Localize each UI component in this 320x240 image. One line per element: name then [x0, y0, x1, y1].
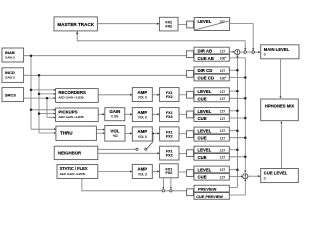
junction tap on row3 wire [152, 132, 154, 134]
svg-text:CUE LEVEL: CUE LEVEL [264, 171, 288, 176]
wire main sum line [240, 51, 259, 53]
svg-text:FX1: FX1 [166, 91, 173, 95]
svg-text:CUE AB: CUE AB [198, 56, 214, 61]
wire dir ab out [229, 51, 233, 53]
junction level3 join [236, 90, 239, 93]
svg-text:127: 127 [220, 129, 226, 133]
svg-text:CUE: CUE [198, 96, 207, 101]
svg-text:127: 127 [220, 148, 226, 152]
wire bus INCD vertical [38, 75, 40, 133]
input INCD [2, 68, 24, 83]
node preview tap node 1 [162, 190, 164, 192]
svg-text:LEVEL: LEVEL [198, 89, 212, 94]
svg-text:FX2: FX2 [166, 171, 173, 175]
wire main level bus [230, 55, 238, 188]
svg-text:127: 127 [220, 110, 226, 114]
svg-text:DIR CD: DIR CD [198, 68, 213, 73]
junction INCD branch [38, 74, 41, 77]
svg-text:STATIC / FLEX: STATIC / FLEX [60, 166, 88, 171]
static flex [57, 165, 98, 179]
wire master to fx [97, 23, 157, 25]
pair6 upper LEVEL [194, 146, 229, 153]
fader ramp [195, 21, 229, 30]
wire fx to fork0 [178, 23, 187, 25]
arrow into master track [76, 31, 78, 34]
wire amp5 to fx5 [152, 170, 158, 172]
splitter 2 [187, 71, 194, 78]
junction level7 join [236, 168, 239, 171]
wire level6 out [229, 149, 237, 151]
amp1 [132, 88, 152, 102]
wire fx1 to fork3 [179, 94, 187, 96]
svg-text:0: 0 [264, 53, 266, 57]
fx1 [160, 88, 179, 102]
svg-text:VOL 0: VOL 0 [138, 116, 147, 120]
svg-text:FX2: FX2 [166, 134, 173, 138]
junction cue cd join [244, 76, 247, 79]
svg-text:127: 127 [220, 137, 226, 141]
junction cue4 join [244, 117, 247, 120]
wire amp3 to fx3 [152, 132, 158, 134]
wire INCD tap pickups [39, 113, 56, 115]
svg-text:FX1: FX1 [166, 167, 173, 171]
svg-text:INCD: INCD [5, 70, 15, 75]
wire recorders to amp1 [98, 94, 130, 96]
splitter 5 [187, 131, 194, 138]
pair5 lower CUE [194, 134, 229, 141]
pair4 upper LEVEL [194, 107, 229, 114]
amp2 [132, 108, 152, 122]
input INAB [2, 48, 24, 62]
junction INAB-pickups [30, 109, 33, 112]
wire cue3 out [229, 97, 245, 99]
node main sum circle [235, 50, 240, 55]
svg-text:LEVEL: LEVEL [198, 148, 212, 153]
wire dir cd out [229, 69, 237, 71]
svg-text:127: 127 [220, 176, 226, 180]
splitter 1 [187, 51, 194, 58]
wire cue sum out [248, 175, 259, 177]
wire static to amp5 [98, 170, 131, 172]
wire INAB tap pickups [31, 109, 56, 111]
splitter 7 [187, 170, 194, 177]
svg-text:PICKUPS: PICKUPS [58, 109, 77, 114]
svg-text:VOL 0: VOL 0 [138, 135, 147, 139]
svg-text:127: 127 [220, 168, 226, 172]
svg-text:FX2: FX2 [166, 154, 173, 158]
pair3 lower CUE [194, 95, 229, 102]
junction level4 join [236, 110, 239, 113]
fx3 [160, 127, 179, 141]
wire switch tap vertical [152, 133, 154, 141]
svg-text:VOL: VOL [110, 129, 119, 134]
svg-text:127: 127 [220, 117, 226, 121]
wire fx5 preview tap 2 [170, 178, 172, 188]
svg-text:AMP: AMP [137, 90, 147, 95]
wire INAB tap thru [31, 128, 56, 130]
svg-text:RECORDERS: RECORDERS [58, 90, 86, 95]
pair1 lower CUE AB [194, 55, 229, 62]
wire INCD to fork2 [23, 74, 186, 76]
pickups [56, 108, 99, 122]
wire main level to hphones [280, 59, 282, 97]
recorders [56, 89, 99, 103]
wire bus SRC3 vertical [47, 98, 56, 117]
pair2 upper DIR CD [194, 67, 229, 74]
svg-text:CUE: CUE [198, 175, 207, 180]
svg-text:VOL 0: VOL 0 [138, 96, 147, 100]
junction cue3 join [244, 97, 247, 100]
svg-text:LEVEL: LEVEL [198, 167, 212, 172]
splitter 3 [187, 91, 194, 98]
junction INCD-recorders [38, 93, 41, 96]
wire cue cd out [229, 77, 245, 79]
svg-text:127: 127 [220, 49, 226, 53]
svg-text:127: 127 [220, 90, 226, 94]
svg-text:AED GAIN +12DB: AED GAIN +12DB [60, 172, 85, 176]
svg-text:AMP: AMP [137, 110, 147, 115]
splitter master [187, 21, 194, 28]
wire INAB to fork1 [24, 55, 187, 57]
svg-text:CUE: CUE [198, 136, 207, 141]
fx0 [159, 17, 178, 31]
svg-text:LEVEL: LEVEL [198, 19, 212, 24]
junction INAB-recorders [30, 89, 33, 92]
svg-text:FX2: FX2 [165, 25, 172, 29]
svg-text:CUE PREVIEW: CUE PREVIEW [196, 195, 223, 199]
wire cue preview riser [230, 179, 246, 195]
wire gain to amp2 [125, 113, 131, 115]
svg-text:127: 127 [220, 20, 225, 24]
svg-text:VOL 0: VOL 0 [138, 172, 147, 176]
svg-text:PREVIEW: PREVIEW [198, 187, 217, 192]
svg-text:GAIN: GAIN [109, 109, 120, 114]
wire bus INAB vertical [30, 56, 32, 130]
svg-text:HPHONES MIX: HPHONES MIX [265, 103, 295, 108]
node master feed junction [244, 51, 247, 54]
wire fx2 to fork4 [179, 113, 187, 115]
vol [105, 126, 125, 142]
wire INAB tap recorders [31, 89, 56, 91]
junction SRC3 branch [46, 97, 49, 100]
svg-text:MAIN LEVEL: MAIN LEVEL [264, 47, 290, 52]
wire INCD tap recorders [39, 93, 56, 95]
wire neighbor lower to fx4 [98, 152, 158, 154]
svg-text:100°: 100° [220, 57, 227, 61]
neighbor [54, 146, 98, 159]
svg-text:127: 127 [220, 156, 226, 160]
wire cue5 out [229, 137, 245, 139]
wire level0 out [230, 24, 254, 51]
svg-text:127: 127 [220, 69, 226, 73]
svg-text:FX2: FX2 [166, 95, 173, 99]
pair2 lower CUE CD [194, 74, 229, 81]
junction INCD-pickups [38, 112, 41, 115]
wire thru to vol upper [96, 129, 103, 131]
wire thru to vol lower [96, 132, 103, 134]
wire fx4 to fork6 [179, 153, 187, 155]
hphones mix [261, 99, 299, 121]
node switch pivot a [136, 148, 138, 150]
master track [54, 17, 97, 31]
wire vol to amp3 [125, 132, 131, 134]
junction dir cd join [236, 69, 239, 72]
splitter 8 [187, 189, 194, 196]
node preview tap node 2 [170, 190, 172, 192]
svg-text:THRU: THRU [60, 131, 73, 136]
wire level5 out [229, 130, 237, 132]
svg-text:AED GAIN +12DB: AED GAIN +12DB [58, 115, 83, 119]
wire amp2 to fx2 [152, 113, 158, 115]
junction level5 join [236, 129, 239, 132]
svg-text:FX1: FX1 [166, 131, 173, 135]
svg-text:MASTER TRACK: MASTER TRACK [57, 22, 94, 27]
wire INCD tap thru [39, 132, 56, 134]
svg-text:0: 0 [264, 176, 266, 180]
svg-text:NEIGHBOR: NEIGHBOR [58, 151, 82, 156]
svg-text:FX2: FX2 [166, 115, 173, 119]
svg-text:DIR AB: DIR AB [198, 49, 213, 54]
cue level [261, 169, 299, 183]
node master level out junction [252, 51, 255, 54]
wire fx3 to fork5 [179, 133, 187, 135]
pair8 lower CUE PREVIEW [194, 193, 229, 200]
svg-text:CUE CD: CUE CD [198, 76, 214, 81]
svg-text:AED GAIN +12DB: AED GAIN +12DB [58, 96, 83, 100]
junction level6 join [236, 149, 239, 152]
pair6 lower CUE [194, 154, 229, 161]
svg-text:INAB: INAB [5, 50, 15, 55]
svg-text:FX1: FX1 [165, 21, 172, 25]
wire fx5 to fork7 [179, 171, 187, 173]
svg-text:SRC3: SRC3 [5, 92, 16, 97]
fx4 [160, 146, 179, 160]
wire neighbor upper to switch [98, 148, 136, 150]
svg-text:CUE: CUE [198, 155, 207, 160]
svg-text:FX1: FX1 [166, 111, 173, 115]
pair8 upper PREVIEW [194, 185, 229, 192]
fx2 [160, 108, 179, 122]
svg-text:GAIN 0: GAIN 0 [5, 76, 15, 80]
svg-text:LEVEL: LEVEL [198, 109, 212, 114]
wire cue4 out [229, 117, 245, 119]
pair5 upper LEVEL [194, 127, 229, 134]
switch neighbor tap lever [147, 142, 153, 149]
master level fader [194, 18, 229, 31]
wire static preview feed [82, 179, 187, 191]
fx5 [160, 164, 179, 178]
wire cue5 into sum [229, 175, 241, 177]
pair3 upper LEVEL [194, 88, 229, 95]
svg-text:+63: +63 [112, 134, 118, 138]
splitter 4 [187, 111, 194, 118]
svg-text:AMP: AMP [137, 167, 147, 172]
svg-text:AMP: AMP [137, 129, 147, 134]
splitter 6 [187, 150, 194, 157]
junction cue6 join [244, 156, 247, 159]
node switch pivot b [145, 148, 147, 150]
wire fx5 preview tap 1 [162, 178, 164, 188]
input SRC3 [2, 88, 24, 102]
svg-text:127: 127 [220, 97, 226, 101]
amp3 [132, 127, 152, 141]
wire level7 out [229, 169, 237, 171]
pair7 lower CUE [194, 173, 229, 180]
svg-text:FX1: FX1 [166, 150, 173, 154]
wire cue6 out [229, 156, 245, 158]
junction INAB branch [30, 54, 33, 57]
wire SRC3 to recorders [23, 97, 55, 99]
junction cue5 join [244, 136, 247, 139]
svg-text:0 DB: 0 DB [111, 114, 118, 118]
svg-text:100°: 100° [220, 76, 227, 80]
pair1 upper DIR AB [194, 47, 229, 54]
wire pickups to gain [98, 113, 103, 115]
wire master sum feed y40.8 [77, 31, 245, 51]
svg-text:CUE: CUE [198, 116, 207, 121]
amp5 [132, 164, 152, 178]
wire cue bus top [229, 58, 245, 172]
svg-text:LEVEL: LEVEL [198, 128, 212, 133]
svg-text:GAIN 0: GAIN 0 [5, 56, 15, 60]
pair4 lower CUE [194, 115, 229, 122]
wire level4 out [229, 110, 237, 112]
wire amp1 to fx1 [152, 94, 158, 96]
node cue sum circle [243, 174, 248, 179]
thru [56, 126, 97, 140]
wire level3 out [229, 90, 237, 92]
wire cue level to hphones [280, 123, 282, 169]
pair7 upper LEVEL [194, 166, 229, 173]
gain [105, 108, 125, 121]
main level [261, 45, 299, 59]
